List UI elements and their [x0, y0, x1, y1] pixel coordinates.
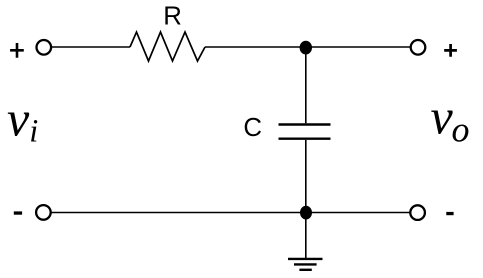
svg-text:v: v — [431, 88, 454, 144]
svg-text:C: C — [243, 114, 262, 142]
svg-text:o: o — [452, 110, 470, 150]
svg-text:v: v — [7, 90, 30, 146]
svg-text:R: R — [163, 3, 182, 31]
svg-text:i: i — [29, 114, 38, 150]
